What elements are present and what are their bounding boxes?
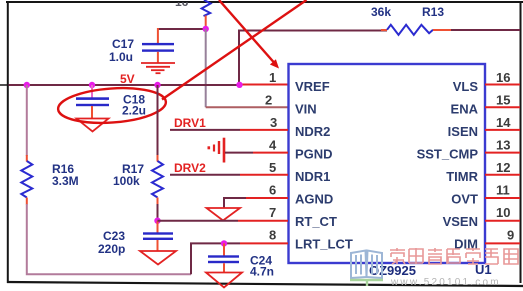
svg-text:15: 15 xyxy=(496,93,510,108)
border tick at 5V rail xyxy=(0,84,9,86)
svg-text:NDR1: NDR1 xyxy=(295,169,330,184)
callout ellipse around C18 xyxy=(57,85,167,126)
lead R17 top xyxy=(157,155,159,162)
svg-text:11: 11 xyxy=(496,183,510,198)
svg-text:NDR2: NDR2 xyxy=(295,124,330,139)
svg-text:1.0u: 1.0u xyxy=(109,50,133,64)
callout line from C18 ellipse to top edge xyxy=(162,0,307,100)
svg-text:VLS: VLS xyxy=(453,79,479,94)
wire R16 bottom to bottom rail xyxy=(27,204,191,274)
resistor R13 xyxy=(387,25,433,35)
wire 5V rail xyxy=(9,84,241,86)
wire R13 net corner xyxy=(239,31,387,85)
capacitor C18 xyxy=(76,97,109,106)
node junction top xyxy=(203,26,209,32)
sheet border left xyxy=(7,2,9,283)
capacitor C17 lead bottom xyxy=(157,52,159,63)
AGND ground triangle xyxy=(207,208,241,221)
svg-text:5V: 5V xyxy=(120,72,135,86)
wire VIN riser (x=205.7) xyxy=(205,29,207,107)
resistor (partial, top edge) xyxy=(202,0,211,16)
sheet border top xyxy=(6,1,523,3)
watermark book icon xyxy=(351,251,382,279)
ground triangle under C24 xyxy=(206,273,242,288)
svg-text:VREF: VREF xyxy=(295,79,330,94)
svg-text:4: 4 xyxy=(269,138,277,153)
svg-text:5: 5 xyxy=(269,160,276,175)
port DRV1 underline wire xyxy=(170,129,240,131)
svg-text:8: 8 xyxy=(269,228,276,243)
svg-text:www.520101.com: www.520101.com xyxy=(390,277,501,288)
sheet border bottom xyxy=(7,282,523,286)
svg-text:36k: 36k xyxy=(371,5,391,19)
callout arrowhead at VREF xyxy=(270,59,279,68)
watermark chinese characters (stylized) xyxy=(390,248,518,264)
IC U1 OZ9925 body xyxy=(289,64,486,263)
node dot R16 xyxy=(24,82,30,88)
node dot pin7 xyxy=(154,218,160,224)
ground triangle under C18 xyxy=(77,119,109,132)
wire R17 bottom to pin7 node xyxy=(157,204,159,221)
capacitor C24 lead bottom xyxy=(223,263,225,272)
resistor R17 xyxy=(152,161,163,198)
ground (earth) under C17 xyxy=(141,63,175,73)
pin 3 NDR2 wire xyxy=(240,129,288,131)
capacitor C17 xyxy=(142,43,174,52)
svg-text:ENA: ENA xyxy=(451,102,479,117)
capacitor C17 lead top xyxy=(157,28,159,44)
PGND symbol (rotated ground) xyxy=(209,138,224,163)
capacitor C18 lead top xyxy=(91,85,93,98)
wire top-left net (y=29) xyxy=(158,28,206,30)
pin 7 RT_CT wire xyxy=(158,220,239,222)
port DRV2 underline wire xyxy=(170,174,240,176)
svg-text:C17: C17 xyxy=(112,37,134,51)
callout line pointing to VREF xyxy=(219,0,274,63)
lead R17 bottom xyxy=(157,198,159,205)
partial label 16 (clipped by crop) xyxy=(175,0,189,9)
capacitor C24 xyxy=(208,255,239,263)
pin 8 LRT_LCT wire xyxy=(191,243,240,274)
pin 13 SST_CMP wire xyxy=(485,152,520,154)
node dot C24 xyxy=(221,240,227,246)
lead R13 right xyxy=(433,29,451,31)
svg-text:VIN: VIN xyxy=(295,102,317,117)
svg-text:4.7n: 4.7n xyxy=(250,265,274,279)
svg-text:1: 1 xyxy=(269,70,276,85)
pin 9 DIM wire xyxy=(485,242,520,244)
svg-text:R13: R13 xyxy=(422,5,444,19)
svg-text:3: 3 xyxy=(270,115,277,130)
pin 12 TIMR wire xyxy=(485,174,520,176)
capacitor C23 lead bottom xyxy=(157,240,159,251)
sheet border right xyxy=(520,2,522,283)
svg-text:220p: 220p xyxy=(98,242,125,256)
lead R16 bottom xyxy=(26,198,28,205)
svg-text:DRV2: DRV2 xyxy=(174,161,206,175)
pin 10 VSEN wire xyxy=(485,220,520,222)
pin 5 NDR1 wire xyxy=(240,174,288,176)
wire R13 right to border xyxy=(451,29,520,31)
svg-text:ISEN: ISEN xyxy=(448,124,478,139)
svg-text:6: 6 xyxy=(269,183,276,198)
svg-text:2.2u: 2.2u xyxy=(122,104,146,118)
wire VIN horizontal to pin 2 xyxy=(206,106,288,108)
svg-text:DRV1: DRV1 xyxy=(174,116,206,130)
svg-text:13: 13 xyxy=(496,138,510,153)
capacitor C23 xyxy=(143,232,173,240)
svg-text:RT_CT: RT_CT xyxy=(295,214,337,229)
pin 16 VLS wire xyxy=(485,84,520,86)
pin 11 OVT wire xyxy=(485,197,520,199)
capacitor C18 lead bottom xyxy=(91,106,93,119)
resistor R17 branch: lead from 5V dot xyxy=(157,85,159,156)
pin 14 ISEN wire xyxy=(485,129,520,131)
svg-text:10: 10 xyxy=(496,205,510,220)
pin 15 ENA wire xyxy=(485,106,520,108)
svg-text:7: 7 xyxy=(269,205,276,220)
svg-text:14: 14 xyxy=(496,115,511,130)
svg-text:TIMR: TIMR xyxy=(446,169,478,184)
pin 4 PGND wire xyxy=(225,152,253,154)
resistor R16 branch: lead from 5V dot xyxy=(26,85,28,156)
lead of partial resistor xyxy=(205,16,207,27)
svg-text:OVT: OVT xyxy=(451,192,478,207)
node dot R13 riser xyxy=(236,82,242,88)
lead R16 top xyxy=(26,155,28,162)
node dot C18 xyxy=(89,82,95,88)
svg-text:LRT_LCT: LRT_LCT xyxy=(295,237,353,252)
svg-text:9: 9 xyxy=(507,228,514,243)
svg-text:PGND: PGND xyxy=(295,147,333,162)
svg-text:100k: 100k xyxy=(113,174,140,188)
svg-text:3.3M: 3.3M xyxy=(52,174,79,188)
svg-text:AGND: AGND xyxy=(295,192,333,207)
svg-text:C23: C23 xyxy=(103,229,125,243)
resistor R16 xyxy=(21,161,32,198)
svg-text:2: 2 xyxy=(265,93,272,108)
wire 5V rail to pin 1 VREF (red stub) xyxy=(239,84,288,86)
ground triangle under C23 xyxy=(140,251,176,265)
capacitor C23 lead top xyxy=(157,221,159,233)
lead R13 left xyxy=(381,29,387,31)
svg-text:12: 12 xyxy=(496,160,510,175)
node dot R17 xyxy=(154,82,160,88)
svg-text:16: 16 xyxy=(496,70,510,85)
svg-text:SST_CMP: SST_CMP xyxy=(417,147,479,162)
capacitor C24 lead top xyxy=(223,243,225,256)
pin 6 AGND wire xyxy=(224,198,246,208)
watermark book base (green) xyxy=(350,280,383,286)
svg-text:VSEN: VSEN xyxy=(443,214,478,229)
